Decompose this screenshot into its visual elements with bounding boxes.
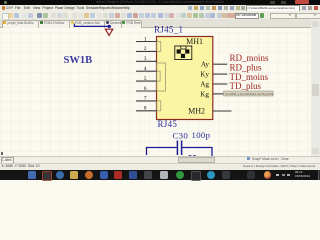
pin 3 [136, 60, 157, 62]
wire capacitor right [182, 148, 212, 157]
wire (top power rail) [74, 24, 109, 27]
svg-text:RD_moins: RD_moins [230, 53, 270, 63]
svg-text:C30: C30 [173, 131, 189, 141]
svg-text:100p: 100p [192, 130, 211, 140]
inner contact box pins 1-2 [157, 42, 161, 52]
svg-text:Ky: Ky [200, 71, 209, 79]
svg-text:Kg: Kg [200, 90, 209, 98]
svg-text:SW1B: SW1B [64, 55, 93, 66]
inner contact box pins 7-8 [157, 101, 161, 111]
svg-text:MH1: MH1 [186, 37, 203, 46]
svg-text:Ay: Ay [201, 61, 210, 69]
svg-text:TD_plus: TD_plus [230, 81, 262, 91]
svg-text:Ag: Ag [200, 80, 209, 88]
svg-text:6: 6 [144, 86, 147, 92]
pin Kg [213, 93, 228, 95]
pin 5 [136, 80, 157, 82]
menu bar [0, 5, 320, 12]
svg-text:RJ45: RJ45 [158, 119, 178, 129]
vertical scrollbar [311, 19, 320, 156]
svg-text:RJ45_1: RJ45_1 [154, 25, 183, 35]
junction dot [108, 25, 111, 28]
component RJ45_1 body [157, 37, 213, 120]
pin MH2 line [213, 110, 232, 112]
svg-text:7: 7 [144, 96, 147, 102]
schematic sheet background with grid [0, 19, 320, 163]
selection dashes [189, 155, 192, 157]
pin 4 [136, 70, 157, 72]
schematic SVG layer [0, 0, 320, 180]
svg-text:8: 8 [144, 106, 147, 112]
svg-text:2: 2 [144, 46, 147, 52]
pin 7 [136, 100, 157, 102]
svg-text:4: 4 [144, 66, 147, 72]
wire capacitor left [147, 148, 177, 156]
inner contact box pins 4-6 outer [157, 63, 166, 91]
svg-text:MH2: MH2 [188, 106, 205, 115]
menu-row right icons [188, 6, 192, 10]
svg-text:5: 5 [144, 76, 147, 82]
pin Ay [213, 63, 228, 65]
pin 6 [136, 90, 157, 92]
svg-text:1: 1 [144, 36, 147, 42]
pin 8 [136, 110, 157, 112]
taskbar [0, 170, 320, 180]
pin Ky [213, 73, 228, 75]
capacitor C30 plates [176, 141, 178, 156]
power port arrow (red hollow triangle) [105, 29, 112, 35]
svg-text:3: 3 [144, 56, 147, 62]
toolbar [0, 11, 320, 20]
svg-text:Pin RJ45_1-12 (TxD/Trans net T: Pin RJ45_1-12 (TxD/Trans net TD_PLUS) [226, 92, 274, 96]
tooltip popup [224, 91, 274, 96]
pin 1 [136, 41, 157, 43]
status bar [0, 163, 320, 172]
pin 2 [136, 50, 157, 52]
sheet corner mark [1, 152, 3, 155]
title bar [0, 0, 320, 5]
inner contact box pins 4-5 inner [157, 71, 161, 81]
document tab bar [0, 19, 320, 27]
horizontal scrollbar row [0, 156, 320, 164]
pin Ag [213, 83, 228, 85]
jack icon box MH1 [175, 46, 192, 60]
